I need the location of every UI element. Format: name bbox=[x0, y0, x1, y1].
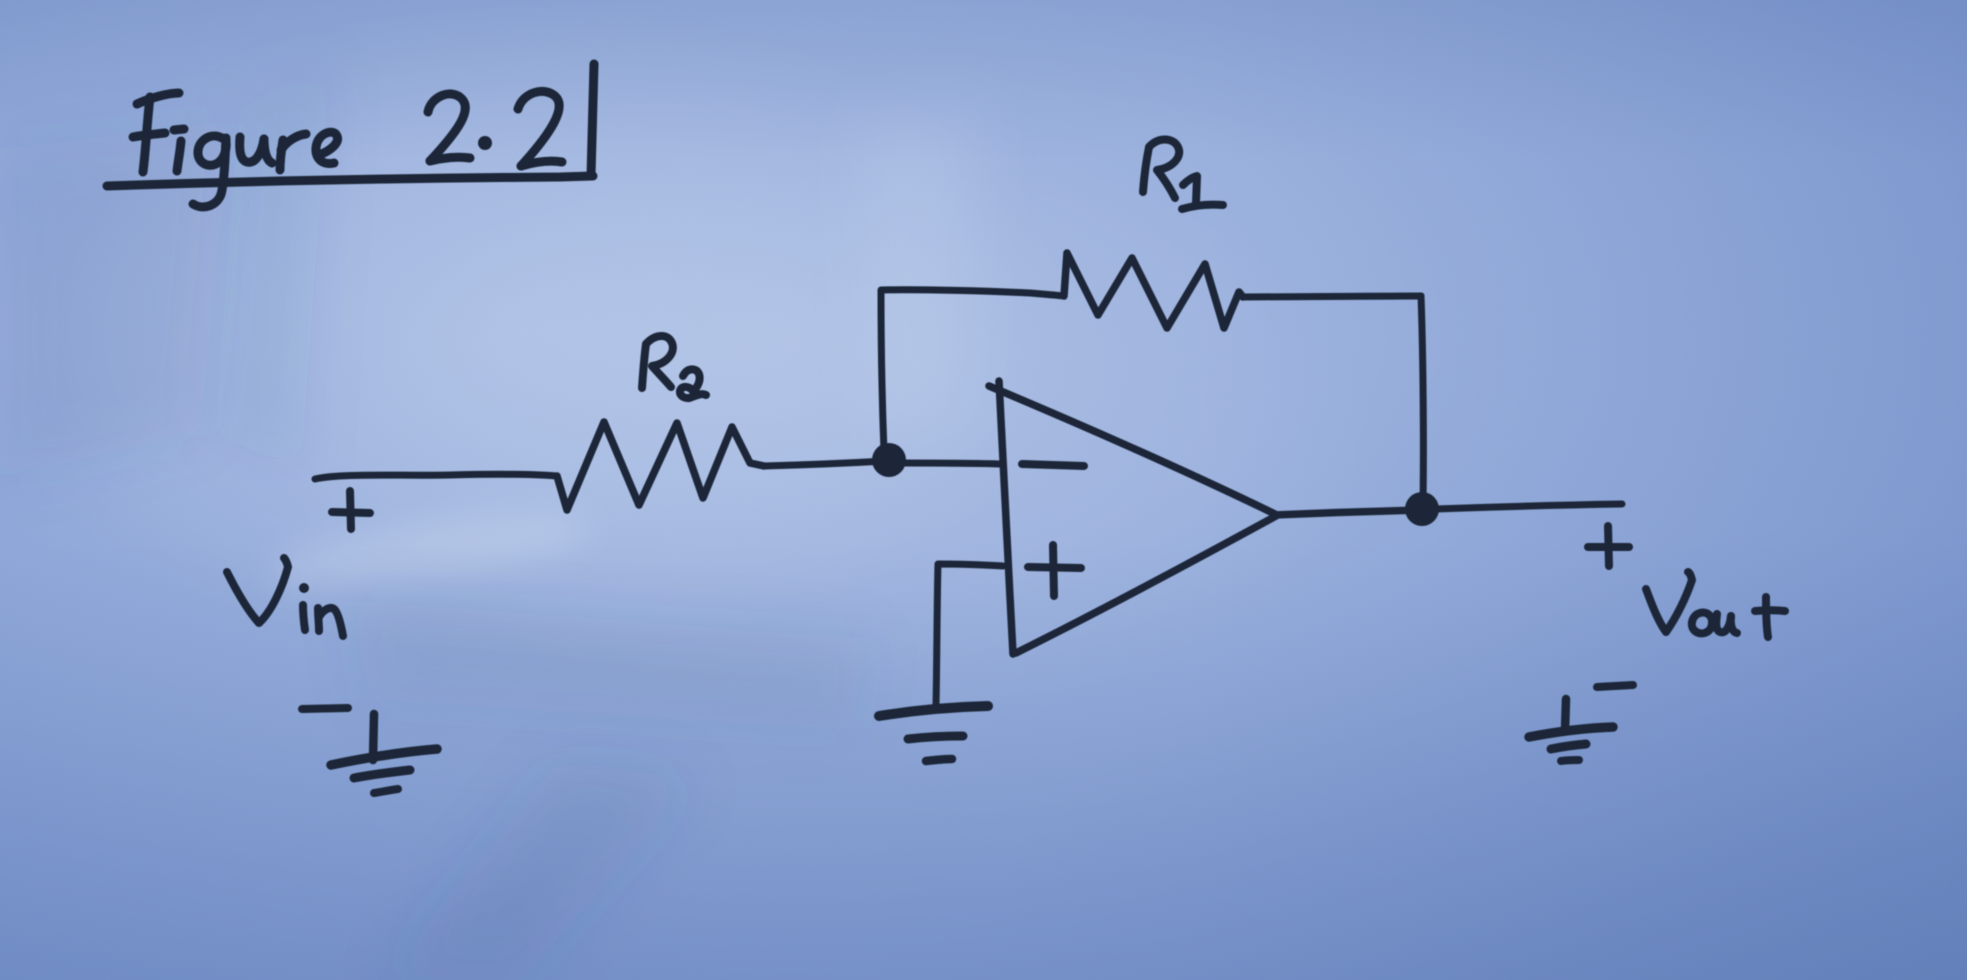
Vout minus sign bbox=[1597, 685, 1633, 687]
Vout label bbox=[1646, 572, 1785, 637]
paper crease shadows bbox=[0, 60, 980, 980]
Vin minus sign bbox=[302, 708, 348, 709]
op-amp plus sign bbox=[1028, 545, 1081, 596]
resistor R2 bbox=[557, 422, 764, 510]
wire R1 to right bbox=[1243, 296, 1421, 297]
wire feedback left vertical bbox=[881, 291, 884, 452]
wire node A to op-amp bbox=[902, 463, 1000, 464]
resistor R1 label bbox=[1143, 140, 1223, 210]
wire output bbox=[1436, 504, 1622, 509]
ground (Vout) bbox=[1529, 699, 1613, 761]
title Figure 2.2 bbox=[107, 64, 594, 207]
wire input bbox=[315, 474, 557, 479]
Vin plus sign bbox=[332, 491, 370, 529]
resistor R2 label bbox=[642, 336, 706, 398]
Vout plus sign bbox=[1588, 526, 1629, 566]
op-amp U1 bbox=[989, 381, 1421, 654]
node B junction dot bbox=[1405, 492, 1439, 526]
wire non-inverting input bbox=[936, 564, 1003, 706]
wire feedback right vertical bbox=[1421, 296, 1423, 502]
node A junction dot bbox=[872, 443, 906, 477]
op-amp minus sign bbox=[1022, 464, 1084, 466]
ground (op-amp) bbox=[879, 706, 988, 761]
wire feedback top bbox=[881, 290, 1064, 296]
Vin label bbox=[227, 558, 343, 636]
resistor R1 bbox=[1064, 253, 1243, 328]
ground (Vin) bbox=[331, 714, 437, 793]
wire R2 to node A bbox=[764, 461, 886, 466]
